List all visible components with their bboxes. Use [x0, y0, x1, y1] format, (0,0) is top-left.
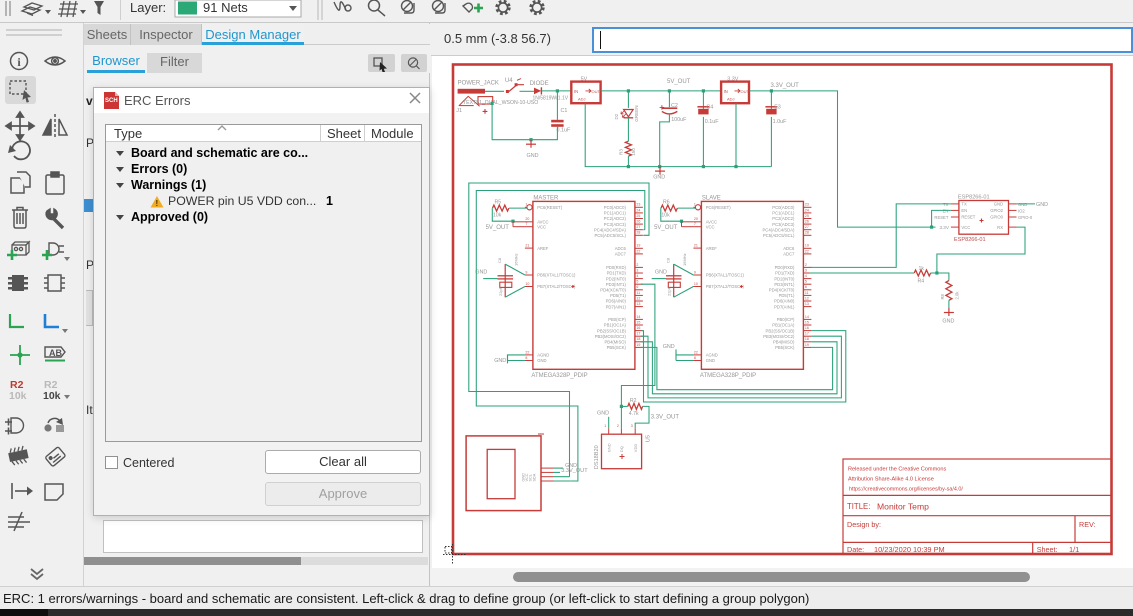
- svg-text:PC0(ADC0): PC0(ADC0): [772, 205, 795, 210]
- svg-text:PD5(T1): PD5(T1): [779, 293, 795, 298]
- svg-text:18: 18: [636, 337, 640, 341]
- svg-text:PD3(INT1): PD3(INT1): [774, 282, 795, 287]
- svg-text:1: 1: [326, 194, 333, 208]
- svg-text:POWER_JACK: POWER_JACK: [458, 81, 499, 87]
- regulator U1 +5V: [571, 76, 600, 103]
- svg-text:ATMEGA328P_PDIP: ATMEGA328P_PDIP: [700, 373, 756, 379]
- green corner wire: [10, 314, 24, 327]
- svg-text:GND: GND: [494, 358, 506, 364]
- wire R6 to 5V net: [661, 208, 682, 221]
- svg-text:Errors (0): Errors (0): [131, 162, 187, 176]
- svg-text:PB1(OC1A): PB1(OC1A): [772, 323, 795, 328]
- svg-text:17: 17: [636, 332, 640, 336]
- chip filled: [8, 275, 28, 291]
- svg-text:13: 13: [636, 302, 640, 306]
- svg-text:3.3V_OUT: 3.3V_OUT: [651, 414, 680, 420]
- LED D3 GREEN: [627, 91, 629, 108]
- wire display GND stub: [554, 467, 564, 469]
- wire crystal to XTAL pins: [674, 264, 694, 275]
- wire R5 to RESET pin: [509, 207, 527, 209]
- svg-text:PD6(AIN0): PD6(AIN0): [606, 299, 627, 304]
- plug+: [49, 243, 64, 255]
- svg-text:AREF: AREF: [537, 246, 549, 251]
- svg-text:Released under the Creative Co: Released under the Creative Commons: [848, 467, 946, 473]
- svg-text:16MHz: 16MHz: [513, 253, 518, 266]
- svg-text:PD0(RXD): PD0(RXD): [775, 265, 795, 270]
- svg-text:TEXT51_DUAL_WSON-10-USO: TEXT51_DUAL_WSON-10-USO: [463, 100, 538, 106]
- svg-text:GREEN: GREEN: [634, 105, 639, 121]
- blue corner wire: [45, 314, 59, 327]
- svg-text:2: 2: [805, 263, 807, 267]
- wire SPI bus line 2 (MASTER to SLAVE): [641, 336, 842, 398]
- wire SLAVE TXD to R4: [809, 272, 914, 274]
- svg-text:PD1(TXD): PD1(TXD): [607, 271, 627, 276]
- svg-text:R5: R5: [495, 199, 502, 205]
- chip outline: [44, 275, 65, 291]
- svg-text:C1: C1: [561, 108, 568, 114]
- gears: [497, 2, 543, 14]
- svg-text:PB2(SS/OC1B): PB2(SS/OC1B): [766, 328, 795, 333]
- wire ESP EN to 3.3V: [932, 210, 951, 227]
- svg-text:J1: J1: [456, 108, 462, 114]
- svg-text:ADC6: ADC6: [783, 246, 795, 251]
- svg-text:RX: RX: [997, 225, 1003, 230]
- info: [11, 53, 28, 70]
- svg-text:ADJ: ADJ: [578, 97, 586, 102]
- gate icon: [11, 418, 24, 433]
- svg-text:16: 16: [805, 326, 809, 330]
- svg-text:3.3V: 3.3V: [939, 225, 949, 230]
- svg-text:17: 17: [805, 332, 809, 336]
- AVCC/VCC pin bracket: [513, 222, 525, 227]
- flow icon: [48, 418, 60, 423]
- svg-text:PB5(SCK): PB5(SCK): [607, 345, 627, 350]
- svg-text:AGND: AGND: [537, 353, 549, 358]
- switch U4: [505, 78, 524, 93]
- capacitor E3 1.0uF: [770, 91, 772, 110]
- polygon tool: [45, 484, 63, 500]
- svg-text:PC3(ADC3): PC3(ADC3): [604, 222, 627, 227]
- svg-text:PC2(ADC2): PC2(ADC2): [772, 216, 795, 221]
- funnel: [94, 1, 104, 15]
- svg-text:3: 3: [636, 268, 638, 272]
- svg-text:DS18B20: DS18B20: [594, 445, 600, 469]
- svg-text:PB1(OC1A): PB1(OC1A): [604, 323, 627, 328]
- IC U1 ATMEGA328P (MASTER): [525, 195, 643, 379]
- plug +: [463, 3, 472, 12]
- svg-text:13: 13: [805, 302, 809, 306]
- svg-text:15: 15: [636, 320, 640, 324]
- svg-text:VCC: VCC: [961, 225, 970, 230]
- svg-text:100uF: 100uF: [671, 117, 687, 123]
- svg-text:1: 1: [604, 424, 606, 428]
- svg-text:GND: GND: [1036, 202, 1048, 208]
- svg-text:Monitor Temp: Monitor Temp: [877, 502, 929, 512]
- svg-text:RESET: RESET: [934, 215, 948, 220]
- svg-text:C2: C2: [671, 103, 678, 109]
- wire switch to diode: [520, 90, 535, 92]
- capacitor C4 0.1uF: [702, 91, 704, 110]
- resistor R5 10k: [493, 205, 509, 211]
- svg-text:SDA: SDA: [532, 473, 536, 481]
- connector J1 POWER_JACK: [456, 81, 538, 115]
- wire I2C SCL loop (MASTER PC5 to display): [469, 183, 649, 477]
- rotate: [12, 141, 30, 159]
- regulator U2 3.3V: [721, 76, 749, 103]
- title block: [843, 459, 1112, 554]
- svg-text:IO2: IO2: [1018, 208, 1025, 213]
- svg-text:R8: R8: [940, 293, 945, 299]
- svg-text:10k: 10k: [43, 390, 61, 402]
- svg-text:D2: D2: [614, 113, 619, 119]
- canvas horizontal scrollbar: [431, 568, 1133, 586]
- IC U2 ATMEGA328P (SLAVE): [693, 195, 811, 379]
- svg-text:16MHz: 16MHz: [682, 253, 687, 266]
- svg-text:SCH: SCH: [105, 98, 118, 104]
- svg-text:1/1: 1/1: [1069, 545, 1079, 554]
- svg-text:GND: GND: [994, 202, 1003, 207]
- svg-text:PD7(AIN1): PD7(AIN1): [606, 304, 627, 309]
- tab strip: [84, 24, 430, 45]
- wire display SDA stub: [554, 480, 571, 482]
- svg-text:ATMEGA328P_PDIP: ATMEGA328P_PDIP: [531, 373, 587, 379]
- svg-text:PC6(RESET): PC6(RESET): [537, 205, 563, 210]
- svg-text:11: 11: [805, 291, 809, 295]
- svg-text:PB2(SS/OC1B): PB2(SS/OC1B): [597, 328, 626, 333]
- svg-text:GND: GND: [942, 319, 954, 325]
- layer dropdown: [175, 0, 301, 17]
- svg-text:GND: GND: [597, 411, 609, 417]
- wire R4 to divider node to ESP RX: [931, 272, 937, 274]
- wire display SCL stub: [554, 476, 570, 478]
- wire E3 to gnd bus: [770, 117, 772, 167]
- ground (R8): [944, 308, 954, 316]
- svg-text:20: 20: [525, 217, 529, 221]
- svg-text:ADC6: ADC6: [615, 246, 627, 251]
- svg-text:PD1(TXD): PD1(TXD): [775, 271, 795, 276]
- wire DS18B20 GND pin: [608, 417, 610, 428]
- wire SPI bus line 1 (MASTER to SLAVE): [641, 331, 846, 402]
- resistor R2 4.7k pullup: [628, 403, 643, 409]
- gnd bus wire: [585, 103, 771, 166]
- svg-text:2: 2: [617, 424, 619, 428]
- svg-text:25: 25: [636, 214, 640, 218]
- select tool (active): [5, 76, 36, 104]
- svg-text:3: 3: [805, 268, 807, 272]
- display module OLED: [466, 434, 553, 511]
- svg-text:2: 2: [636, 263, 638, 267]
- svg-text:AREF: AREF: [706, 246, 718, 251]
- svg-text:REV:: REV:: [1079, 520, 1096, 529]
- wire C1 to gnd net: [492, 103, 557, 139]
- svg-text:27: 27: [636, 225, 640, 229]
- svg-text:24: 24: [636, 208, 640, 212]
- svg-text:GND: GND: [706, 358, 715, 363]
- svg-text:22: 22: [636, 249, 640, 253]
- svg-text:1: 1: [694, 203, 696, 207]
- svg-text:12: 12: [636, 296, 640, 300]
- svg-text:18: 18: [805, 337, 809, 341]
- svg-text:PB7(XTAL2/TOSC2): PB7(XTAL2/TOSC2): [537, 284, 576, 289]
- diode D2: [530, 81, 569, 101]
- svg-text:Date:: Date:: [847, 545, 864, 554]
- svg-text:21: 21: [525, 244, 529, 248]
- svg-text:VDD: VDD: [633, 444, 638, 453]
- svg-text:PC1(ADC1): PC1(ADC1): [772, 211, 795, 216]
- svg-text:11: 11: [636, 291, 640, 295]
- wire ESP GND to label: [1017, 203, 1036, 205]
- svg-text:9: 9: [694, 270, 696, 274]
- wire 5V rail U1 to U2: [601, 90, 722, 92]
- ic chip slanted: [7, 445, 29, 466]
- svg-text:PD5(T1): PD5(T1): [610, 293, 626, 298]
- svg-text:26: 26: [805, 220, 809, 224]
- svg-text:GND: GND: [655, 270, 667, 276]
- svg-text:VCC: VCC: [537, 224, 546, 229]
- tag icon: [45, 447, 66, 467]
- svg-text:28: 28: [636, 231, 640, 235]
- grid icon: [58, 1, 78, 17]
- svg-text:PB4(MISO): PB4(MISO): [773, 340, 795, 345]
- svg-text:PD2(INT0): PD2(INT0): [606, 276, 627, 281]
- svg-text:21: 21: [694, 244, 698, 248]
- svg-text:PB7(XTAL2/TOSC2): PB7(XTAL2/TOSC2): [706, 284, 745, 289]
- svg-text:POWER pin U5 VDD con...: POWER pin U5 VDD con...: [168, 194, 316, 208]
- ground (main bus): [655, 167, 665, 175]
- wire jack to switch: [485, 90, 504, 92]
- wire 3.3V rail to ESP: [749, 91, 936, 227]
- svg-text:!: !: [156, 199, 159, 208]
- collapse chevrons: [31, 569, 43, 579]
- svg-text:5: 5: [636, 280, 638, 284]
- svg-text:PB3(MOSI/OC2): PB3(MOSI/OC2): [763, 334, 795, 339]
- svg-text:8: 8: [525, 356, 527, 360]
- svg-text:PC3(ADC3): PC3(ADC3): [772, 222, 795, 227]
- svg-text:10: 10: [694, 282, 698, 286]
- svg-text:12: 12: [805, 296, 809, 300]
- svg-text:PC1(ADC1): PC1(ADC1): [604, 211, 627, 216]
- svg-text:GPIO0: GPIO0: [990, 215, 1003, 220]
- svg-text:25: 25: [805, 214, 809, 218]
- svg-text:PC2(ADC2): PC2(ADC2): [604, 216, 627, 221]
- svg-text:GND: GND: [606, 443, 611, 452]
- svg-text:E3: E3: [774, 104, 781, 110]
- svg-text:5: 5: [805, 280, 807, 284]
- crystal Y2 with load caps: [666, 253, 687, 297]
- svg-text:AB: AB: [49, 348, 62, 358]
- AB label: [45, 347, 65, 357]
- footer: [105, 456, 118, 469]
- svg-text:ADC7: ADC7: [783, 252, 795, 257]
- svg-text:8: 8: [694, 356, 696, 360]
- wire ESP TX to SLAVE RXD: [809, 204, 951, 268]
- svg-text:ESP8266-01: ESP8266-01: [958, 195, 990, 201]
- svg-text:TX: TX: [961, 202, 967, 207]
- pin arrow: [12, 483, 27, 499]
- svg-text:3.3V: 3.3V: [727, 76, 738, 82]
- wire display VCC stub: [554, 471, 561, 473]
- svg-text:EN: EN: [961, 208, 967, 213]
- svg-text:GPIO-0: GPIO-0: [1018, 215, 1033, 220]
- svg-text:VCC: VCC: [706, 224, 715, 229]
- svg-text:IN: IN: [574, 89, 578, 94]
- AVCC/VCC pin bracket: [682, 222, 694, 227]
- svg-text:R6: R6: [663, 199, 670, 205]
- svg-text:PB0(ICP): PB0(ICP): [608, 317, 626, 322]
- wire R8 to ground: [948, 300, 950, 308]
- browser/filter row: [84, 45, 430, 73]
- svg-text:10k: 10k: [661, 212, 670, 218]
- svg-text:Approved (0): Approved (0): [131, 210, 208, 224]
- svg-text:i: i: [17, 55, 21, 69]
- svg-text:19: 19: [805, 343, 809, 347]
- svg-text:ESP8266-01: ESP8266-01: [954, 237, 986, 243]
- svg-text:20: 20: [694, 217, 698, 221]
- svg-text:AGND: AGND: [706, 353, 718, 358]
- svg-text:SLAVE: SLAVE: [702, 195, 721, 201]
- svg-text:DQ: DQ: [619, 446, 624, 452]
- svg-text:23: 23: [636, 203, 640, 207]
- wire C2 to gnd bus: [660, 114, 670, 167]
- svg-text:PB0(ICP): PB0(ICP): [777, 317, 795, 322]
- svg-text:22pF: 22pF: [667, 286, 672, 296]
- wire SPI bus line 3 (MASTER to SLAVE): [641, 342, 837, 394]
- svg-text:26: 26: [636, 220, 640, 224]
- origin crosshair cursor: [443, 544, 466, 564]
- svg-text:GPIO2: GPIO2: [990, 208, 1003, 213]
- wire C4 to gnd bus: [702, 117, 704, 167]
- svg-text:R4: R4: [918, 279, 925, 285]
- svg-text:ADC7: ADC7: [615, 252, 627, 257]
- svg-text:PD6(AIN0): PD6(AIN0): [774, 299, 795, 304]
- capacitor C2 100uF: [668, 91, 670, 107]
- eye: [45, 57, 65, 65]
- svg-text:7: 7: [694, 222, 696, 226]
- svg-text:6: 6: [805, 285, 807, 289]
- svg-text:PB4(MISO): PB4(MISO): [604, 340, 626, 345]
- svg-text:Attribution Share-Alike 4.0 Li: Attribution Share-Alike 4.0 License: [848, 477, 934, 483]
- svg-text:10/23/2020 10:39 PM: 10/23/2020 10:39 PM: [874, 545, 945, 554]
- svg-text:OUT: OUT: [592, 89, 601, 94]
- svg-text:19: 19: [805, 244, 809, 248]
- svg-text:22: 22: [525, 350, 529, 354]
- svg-text:GND: GND: [475, 270, 487, 276]
- svg-text:4.7k: 4.7k: [629, 411, 639, 417]
- wire crystal to XTAL pins: [505, 264, 525, 275]
- move: [6, 112, 34, 140]
- panel content sliver (behind dialog): [84, 73, 430, 586]
- svg-text:5V_OUT: 5V_OUT: [667, 79, 691, 85]
- svg-text:Design by:: Design by:: [847, 520, 881, 529]
- svg-text:PD4(XCK/T0): PD4(XCK/T0): [600, 288, 626, 293]
- svg-text:GND: GND: [537, 358, 546, 363]
- svg-text:23: 23: [805, 203, 809, 207]
- svg-text:GND: GND: [653, 175, 665, 181]
- svg-text:19: 19: [636, 244, 640, 248]
- svg-text:Layer:: Layer:: [130, 0, 166, 15]
- svg-text:PC5(ADC5/SCL): PC5(ADC5/SCL): [594, 233, 626, 238]
- wire R6 to RESET pin: [678, 207, 696, 209]
- svg-text:PB3(MOSI/OC2): PB3(MOSI/OC2): [595, 334, 627, 339]
- green cross node: [10, 345, 30, 365]
- table: [105, 124, 422, 442]
- svg-text:5V_OUT: 5V_OUT: [654, 225, 678, 231]
- svg-text:14: 14: [636, 315, 640, 319]
- svg-text:5V_OUT: 5V_OUT: [486, 225, 510, 231]
- svg-text:C4: C4: [706, 104, 713, 110]
- svg-text:22pF: 22pF: [498, 286, 503, 296]
- svg-text:16: 16: [636, 326, 640, 330]
- wire crystal gnd: [652, 278, 666, 280]
- svg-text:Board and schematic are co...: Board and schematic are co...: [131, 146, 308, 160]
- wire I2C SDA loop (MASTER PC4 to display): [643, 229, 645, 231]
- svg-text:PD4(XCK/T0): PD4(XCK/T0): [769, 288, 795, 293]
- svg-text:27: 27: [805, 225, 809, 229]
- svg-text:2.0k: 2.0k: [955, 291, 960, 300]
- svg-text:9: 9: [525, 270, 527, 274]
- svg-text:7: 7: [525, 222, 527, 226]
- svg-text:3.3V_OUT: 3.3V_OUT: [771, 83, 800, 89]
- net lines: [8, 512, 30, 531]
- svg-text:1: 1: [525, 203, 527, 207]
- wire SPI bus line 4 (MASTER to SLAVE): [641, 347, 833, 389]
- mirror: [43, 114, 67, 139]
- svg-text:R3: R3: [618, 149, 623, 155]
- wrench: [46, 209, 63, 228]
- svg-text:PD3(INT1): PD3(INT1): [606, 282, 627, 287]
- svg-text:19: 19: [636, 343, 640, 347]
- svg-text:PB6(XTAL1/TOSC1): PB6(XTAL1/TOSC1): [706, 273, 745, 278]
- svg-text:MASTER: MASTER: [533, 195, 559, 201]
- svg-text:28: 28: [805, 231, 809, 235]
- svg-text:Sheet:: Sheet:: [1037, 545, 1058, 554]
- crystal Y1 with load caps: [497, 253, 518, 297]
- svg-text:PB5(SCK): PB5(SCK): [775, 345, 795, 350]
- schematic border frame: [453, 65, 1112, 555]
- svg-text:4: 4: [805, 274, 807, 278]
- wire crystal gnd: [483, 278, 497, 280]
- svg-text:ADJ: ADJ: [727, 97, 735, 102]
- svg-text:15: 15: [805, 320, 809, 324]
- wire R2 to 3.3V tap to DS18B20 VDD: [635, 406, 649, 428]
- svg-text:150: 150: [631, 148, 636, 156]
- svg-text:1k: 1k: [919, 266, 925, 272]
- wire R5 to 5V net: [492, 208, 513, 221]
- svg-text:10: 10: [525, 282, 529, 286]
- resistor R3 150: [627, 118, 629, 141]
- svg-text:3.3V_OUT: 3.3V_OUT: [561, 468, 588, 474]
- svg-text:PC4(ADC4/SDA): PC4(ADC4/SDA): [763, 227, 795, 232]
- svg-text:TITLE:: TITLE:: [847, 502, 870, 511]
- paste: [46, 172, 64, 194]
- svg-text:U5: U5: [646, 435, 652, 442]
- svg-text:PC6(RESET): PC6(RESET): [706, 205, 732, 210]
- svg-text:10k: 10k: [493, 212, 502, 218]
- copy: [11, 172, 30, 193]
- IC U5 DS18B20 temperature sensor: [594, 424, 652, 469]
- svg-text:R2: R2: [630, 398, 637, 404]
- svg-text:6: 6: [636, 285, 638, 289]
- capacitor C1 0.1uF: [556, 91, 558, 120]
- wire diode to regulator U1 IN, node C1 tap: [541, 90, 571, 92]
- svg-text:22: 22: [805, 249, 809, 253]
- svg-text:24: 24: [805, 208, 809, 212]
- trash: [12, 208, 28, 229]
- wire DQ node to DS18B20 pin2: [620, 406, 622, 428]
- wire U2 ADJ to gnd bus: [735, 103, 737, 166]
- IC U3 ESP8266-01: [934, 195, 1032, 244]
- svg-text:22: 22: [694, 350, 698, 354]
